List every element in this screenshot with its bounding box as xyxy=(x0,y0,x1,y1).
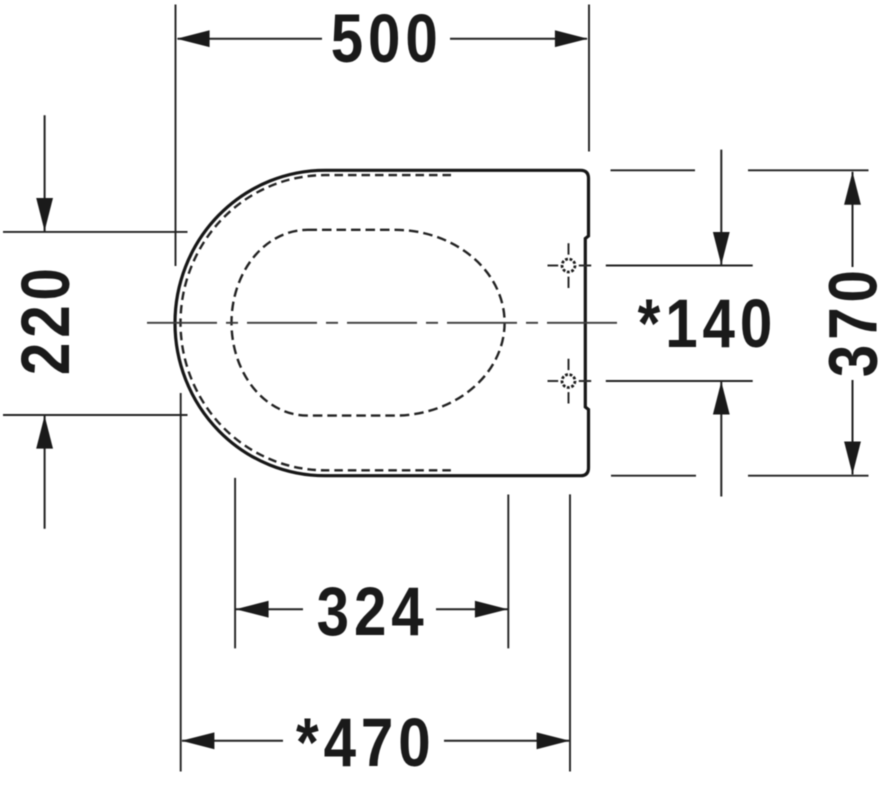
dim 324 line right segment xyxy=(436,608,508,610)
dim 470 extension line right xyxy=(569,494,571,771)
dim 370 extension line bottom xyxy=(611,475,869,477)
dim 370 line top segment xyxy=(852,172,854,267)
dim 220 line top segment xyxy=(44,115,46,231)
dim 370 extension line top xyxy=(611,169,869,171)
dim 220 line bottom segment xyxy=(44,416,46,529)
dim 470 line left segment xyxy=(182,740,283,742)
dim 324 arrow right xyxy=(475,601,508,618)
hinge bottom crosshair xyxy=(548,359,592,404)
hinge hole top: dotted circle xyxy=(562,259,575,272)
dim 324 arrow left xyxy=(236,601,269,618)
dim 140 arrow bottom xyxy=(713,382,730,415)
dim 470 arrow right xyxy=(537,732,570,749)
dim 140 extension line top xyxy=(606,265,753,267)
hinge hole bottom: dotted circle xyxy=(562,375,575,388)
seat inner dashed outline xyxy=(181,175,452,470)
svg-text:324: 324 xyxy=(317,572,429,650)
svg-text:*470: *470 xyxy=(296,703,436,781)
dim 220 extension line top xyxy=(3,231,188,233)
seat opening dashed oval xyxy=(232,230,505,416)
dim 324 extension line left xyxy=(234,478,236,649)
dim 470 extension line left xyxy=(180,393,182,772)
dim 220 arrow bottom xyxy=(36,416,53,449)
dim 324 extension line right xyxy=(507,495,509,649)
dim 220 extension line bottom xyxy=(3,414,188,416)
seat outer outline xyxy=(175,170,589,475)
svg-text:370: 370 xyxy=(814,265,892,377)
dim 500 line left segment xyxy=(178,38,323,40)
dim 500 arrow left xyxy=(177,30,210,47)
dim 140 line top segment xyxy=(720,150,722,265)
dim 370 line bottom segment xyxy=(852,380,854,475)
dim 500 line right segment xyxy=(450,38,587,40)
dim 140 extension line bottom xyxy=(606,380,753,382)
dim 324 line left segment xyxy=(236,608,303,610)
svg-text:500: 500 xyxy=(331,0,443,77)
dim 140 line bottom segment xyxy=(720,382,722,497)
dim 220 arrow top xyxy=(36,198,53,231)
dim 500 extension line left xyxy=(175,5,177,267)
svg-text:220: 220 xyxy=(6,263,84,375)
hinge top crosshair xyxy=(548,243,592,288)
horizontal center line xyxy=(147,322,618,324)
dim 500 extension line right xyxy=(588,5,590,152)
dim 370 arrow top xyxy=(844,172,861,205)
dim 500 arrow right xyxy=(555,30,588,47)
svg-text:*140: *140 xyxy=(638,284,778,362)
dim 140 arrow top xyxy=(713,232,730,265)
dim 470 arrow left xyxy=(181,732,214,749)
dim 370 arrow bottom xyxy=(844,442,861,475)
dim 470 line right segment xyxy=(444,740,569,742)
